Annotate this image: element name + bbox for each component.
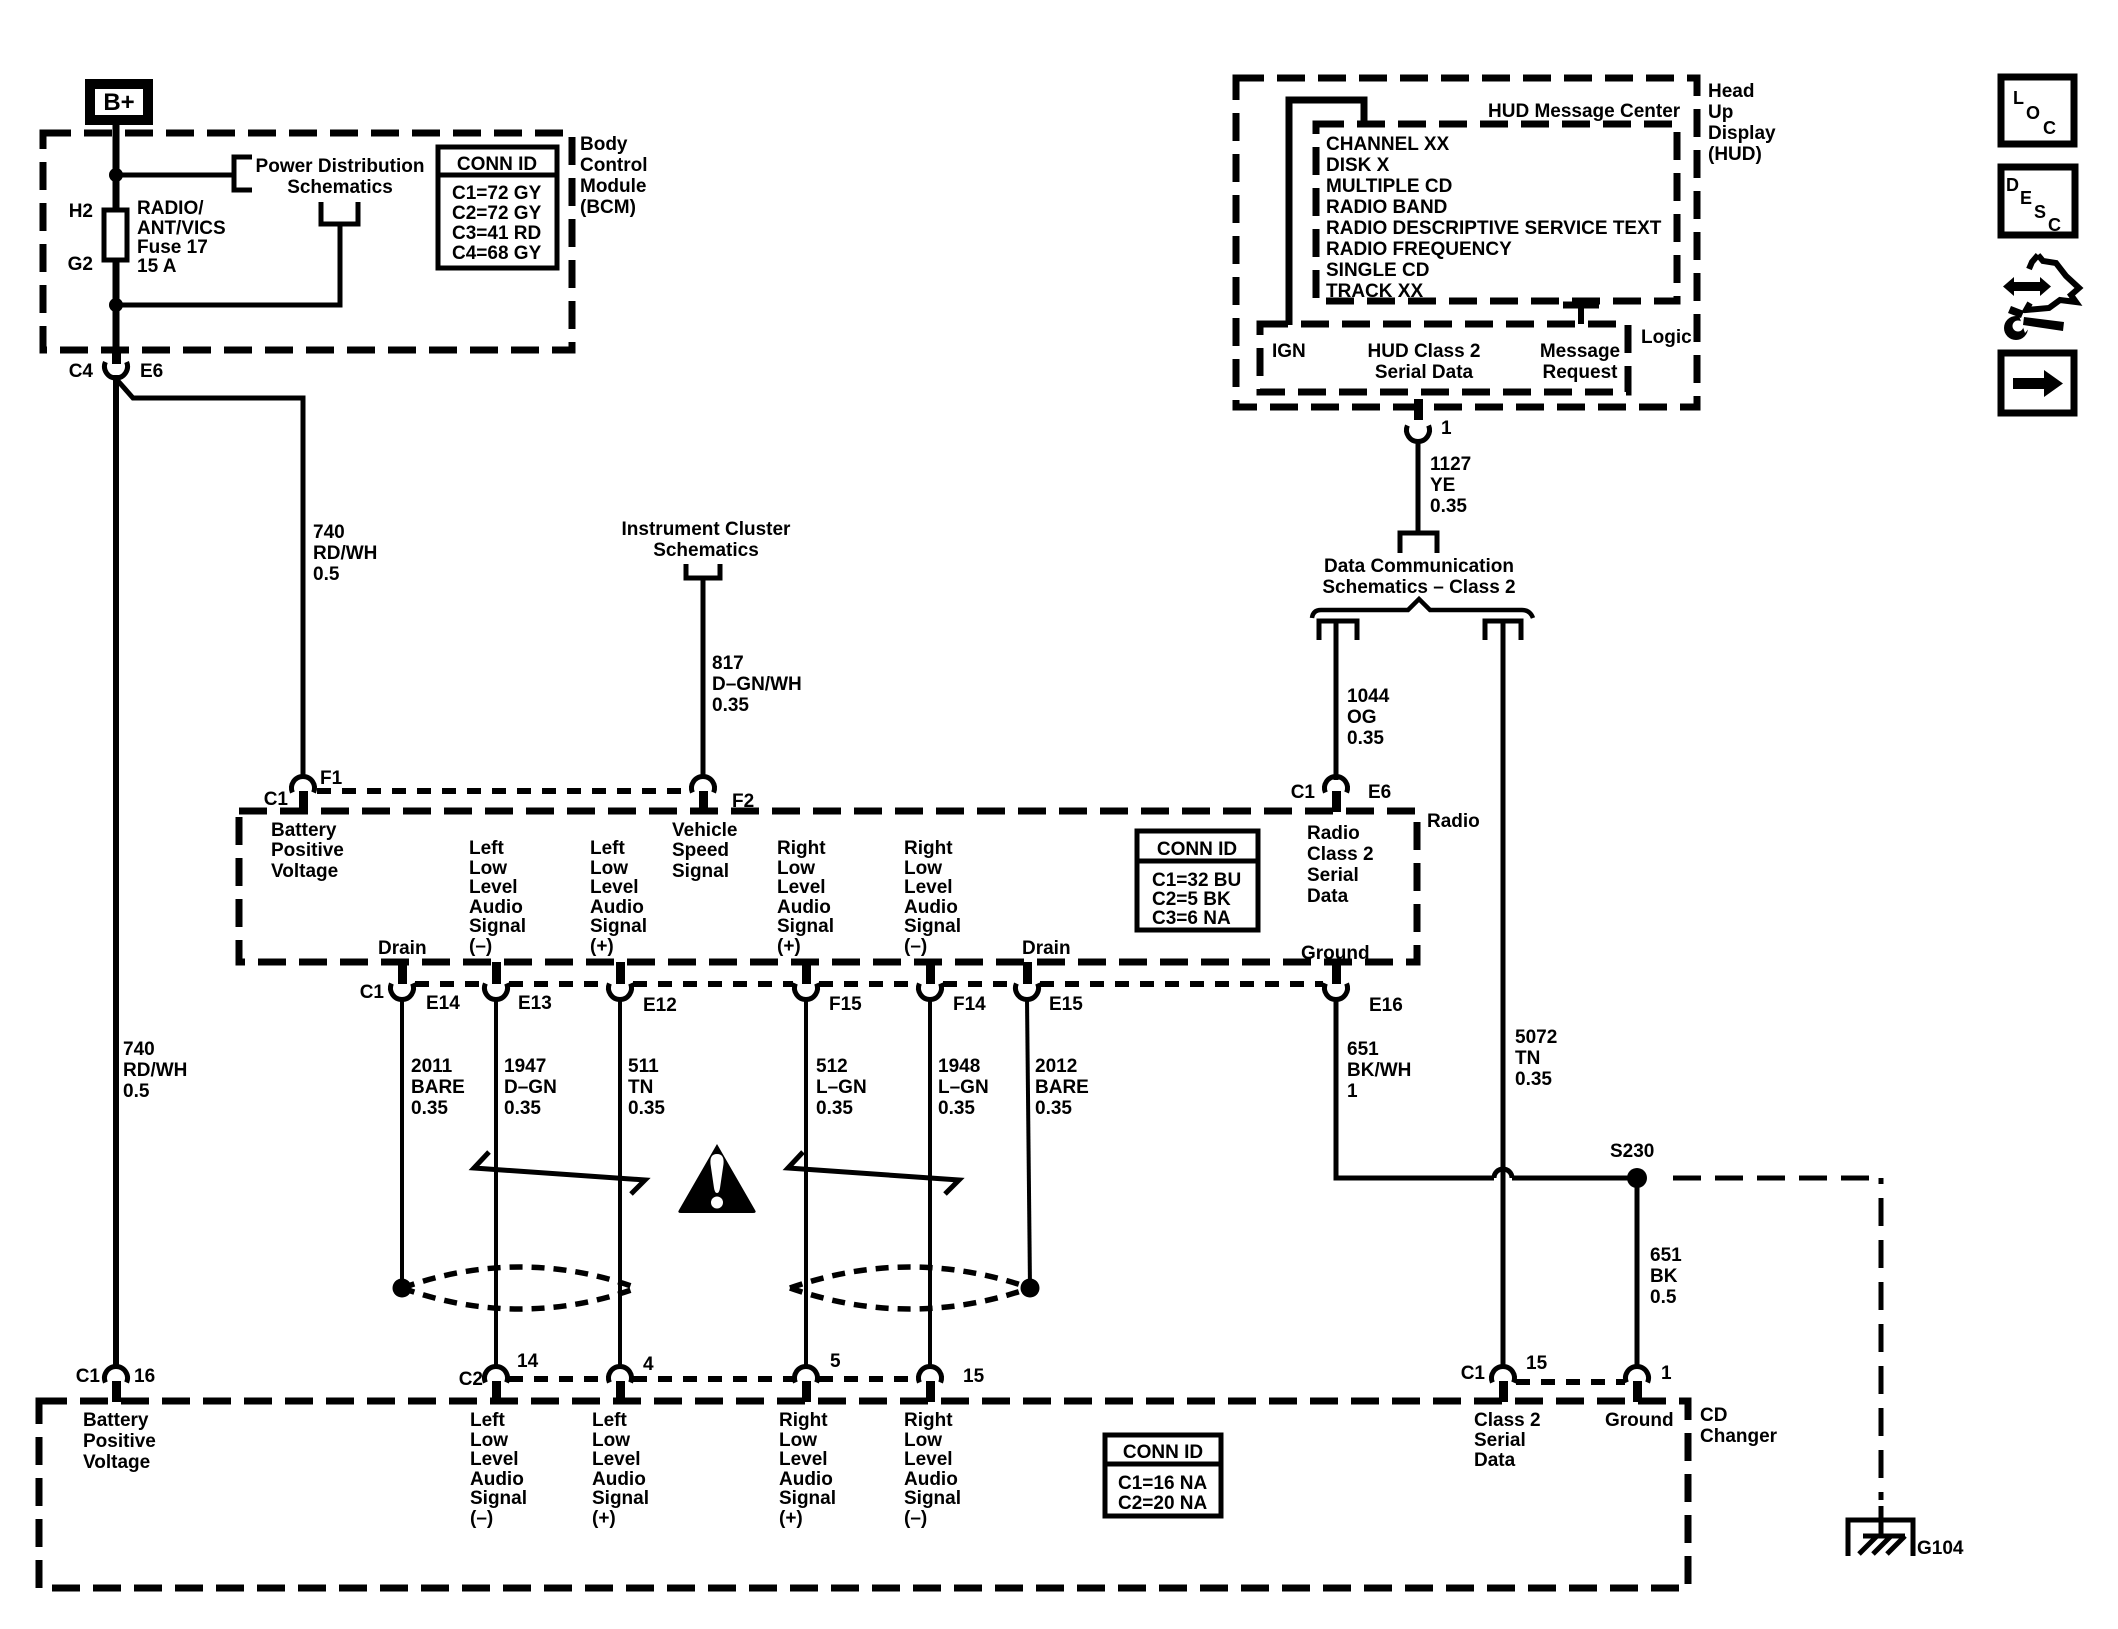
svg-text:D: D bbox=[2006, 175, 2019, 195]
svg-text:D–GN/WH: D–GN/WH bbox=[712, 674, 802, 695]
svg-text:BARE: BARE bbox=[1035, 1077, 1089, 1098]
svg-text:C4=68 GY: C4=68 GY bbox=[452, 243, 542, 264]
svg-text:(+): (+) bbox=[590, 936, 614, 957]
wire from schematics bracket down and left to rail bbox=[116, 224, 340, 305]
label Instrument Cluster Schematics bbox=[622, 519, 792, 561]
shield lens left bbox=[402, 1267, 637, 1309]
svg-text:C1: C1 bbox=[264, 789, 289, 810]
svg-text:Signal: Signal bbox=[904, 916, 961, 937]
svg-text:(–): (–) bbox=[470, 1508, 493, 1529]
svg-text:C1: C1 bbox=[360, 982, 385, 1003]
svg-text:Low: Low bbox=[779, 1430, 817, 1451]
svg-text:IGN: IGN bbox=[1272, 341, 1306, 362]
svg-text:1044: 1044 bbox=[1347, 686, 1390, 707]
label Body Control Module (BCM) bbox=[580, 134, 648, 218]
svg-text:651: 651 bbox=[1650, 1245, 1682, 1266]
brace over class 2 branches bbox=[1312, 599, 1533, 618]
label Message Request bbox=[1540, 341, 1620, 383]
connector 15 audio bbox=[919, 1367, 942, 1402]
svg-text:Radio: Radio bbox=[1427, 811, 1480, 832]
label Power Distribution Schematics bbox=[256, 156, 425, 198]
label right low level audio signal minus bbox=[904, 838, 961, 957]
svg-text:Low: Low bbox=[904, 858, 942, 879]
wire 511 E12 down bbox=[618, 999, 622, 1366]
off-page bracket data communication bbox=[1400, 533, 1437, 553]
svg-text:Up: Up bbox=[1708, 102, 1733, 123]
svg-text:5072: 5072 bbox=[1515, 1027, 1557, 1048]
svg-text:Left: Left bbox=[592, 1410, 628, 1431]
svg-text:Drain: Drain bbox=[378, 938, 427, 959]
CD changer dashed box bbox=[39, 1401, 1688, 1588]
connector E15 drain bbox=[1016, 962, 1039, 999]
svg-text:Request: Request bbox=[1543, 362, 1619, 383]
connector E16 ground bbox=[1325, 962, 1348, 999]
svg-text:C3=41 RD: C3=41 RD bbox=[452, 223, 541, 244]
svg-text:1947: 1947 bbox=[504, 1056, 546, 1077]
node junction lower tap bbox=[109, 298, 123, 312]
label CD left audio minus bbox=[470, 1410, 527, 1529]
label circuit 651 BK 0.5 bbox=[1650, 1245, 1682, 1308]
svg-text:0.35: 0.35 bbox=[712, 695, 749, 716]
svg-text:Left: Left bbox=[590, 838, 626, 859]
svg-text:L: L bbox=[2013, 88, 2024, 108]
svg-text:CONN ID: CONN ID bbox=[1157, 839, 1237, 860]
twisted pair symbol right bbox=[788, 1152, 959, 1194]
connector C1 / E14 drain bbox=[391, 962, 414, 999]
svg-text:Battery: Battery bbox=[83, 1410, 149, 1431]
svg-text:651: 651 bbox=[1347, 1039, 1379, 1060]
wire 651 BK down to CD changer ground bbox=[1635, 1178, 1640, 1366]
shield lens right bbox=[790, 1267, 1030, 1309]
radio pin labels row bbox=[271, 820, 344, 882]
svg-text:0.35: 0.35 bbox=[1430, 496, 1467, 517]
label circuit 740 RD/WH 0.5 lower bbox=[123, 1039, 187, 1102]
connector 4 bbox=[609, 1367, 632, 1402]
svg-text:(BCM): (BCM) bbox=[580, 197, 636, 218]
svg-text:CD: CD bbox=[1700, 1405, 1727, 1426]
svg-text:B+: B+ bbox=[103, 89, 134, 116]
svg-text:C1: C1 bbox=[1461, 1363, 1486, 1384]
svg-text:YE: YE bbox=[1430, 475, 1455, 496]
icon schematic navigation bbox=[2003, 255, 2079, 340]
svg-text:E16: E16 bbox=[1369, 995, 1403, 1016]
svg-text:(+): (+) bbox=[592, 1508, 616, 1529]
svg-text:C1=16 NA: C1=16 NA bbox=[1118, 1473, 1208, 1494]
connector C1 / 16 battery input CD bbox=[105, 1367, 128, 1402]
wire dotted row 2 bbox=[415, 981, 1323, 987]
label circuit 1044 OG 0.35 bbox=[1347, 686, 1390, 749]
svg-text:Signal: Signal bbox=[672, 861, 729, 882]
svg-text:0.35: 0.35 bbox=[1515, 1069, 1552, 1090]
wire 512 F15 down bbox=[804, 999, 808, 1366]
svg-text:C3=6 NA: C3=6 NA bbox=[1152, 908, 1231, 929]
svg-text:F15: F15 bbox=[829, 994, 862, 1015]
svg-text:Changer: Changer bbox=[1700, 1426, 1778, 1447]
svg-text:Message: Message bbox=[1540, 341, 1620, 362]
svg-text:Left: Left bbox=[469, 838, 505, 859]
wire 1947 E13 down bbox=[494, 999, 498, 1366]
svg-text:C1: C1 bbox=[76, 1366, 101, 1387]
label HUD Class 2 Serial Data bbox=[1368, 341, 1481, 383]
svg-text:16: 16 bbox=[134, 1366, 155, 1387]
svg-text:Right: Right bbox=[779, 1410, 828, 1431]
svg-text:CONN ID: CONN ID bbox=[1123, 1442, 1203, 1463]
svg-text:Low: Low bbox=[777, 858, 815, 879]
svg-text:Drain: Drain bbox=[1022, 938, 1071, 959]
svg-text:0.5: 0.5 bbox=[123, 1081, 150, 1102]
label left low level audio signal minus bbox=[469, 838, 526, 957]
label CD right audio minus bbox=[904, 1410, 961, 1529]
svg-text:Ground: Ground bbox=[1301, 943, 1370, 964]
svg-text:Audio: Audio bbox=[779, 1469, 833, 1490]
svg-text:Speed: Speed bbox=[672, 840, 729, 861]
svg-text:C1=72 GY: C1=72 GY bbox=[452, 183, 542, 204]
label circuit 511 TN 0.35 bbox=[628, 1056, 665, 1119]
connector 5 bbox=[795, 1367, 818, 1402]
svg-text:1: 1 bbox=[1441, 418, 1452, 439]
CD changer pin labels bbox=[83, 1410, 156, 1473]
label circuit 740 RD/WH 0.5 upper bbox=[313, 522, 377, 585]
off-page bracket class 2 right bbox=[1485, 621, 1521, 640]
node junction at power distribution tap bbox=[109, 168, 123, 182]
connector F15 bbox=[795, 962, 818, 999]
off-page bracket Power Distribution bbox=[234, 157, 252, 190]
svg-text:Battery: Battery bbox=[271, 820, 337, 841]
label circuit 1947 D-GN 0.35 bbox=[504, 1056, 557, 1119]
svg-text:0.35: 0.35 bbox=[411, 1098, 448, 1119]
svg-text:Positive: Positive bbox=[83, 1431, 156, 1452]
svg-text:Class 2: Class 2 bbox=[1474, 1410, 1541, 1431]
svg-text:S230: S230 bbox=[1610, 1141, 1654, 1162]
svg-text:Low: Low bbox=[469, 858, 507, 879]
wire 1044 down to radio bbox=[1334, 621, 1339, 780]
wire 1948 F14 down bbox=[928, 999, 932, 1366]
svg-text:OG: OG bbox=[1347, 707, 1377, 728]
svg-text:F1: F1 bbox=[320, 768, 343, 789]
svg-text:C2: C2 bbox=[459, 1369, 483, 1390]
svg-text:S: S bbox=[2034, 202, 2046, 222]
svg-text:G104: G104 bbox=[1917, 1538, 1964, 1559]
svg-text:RADIO/: RADIO/ bbox=[137, 198, 204, 219]
svg-text:2011: 2011 bbox=[411, 1056, 453, 1077]
connector F2 vehicle speed input bbox=[692, 777, 715, 812]
label circuit 817 D-GN/WH 0.35 bbox=[712, 653, 802, 716]
svg-text:Serial: Serial bbox=[1307, 865, 1359, 886]
svg-text:0.35: 0.35 bbox=[628, 1098, 665, 1119]
warning triangle bbox=[678, 1144, 755, 1213]
svg-text:5: 5 bbox=[830, 1351, 841, 1372]
wire S230 to splice bbox=[1512, 1176, 1638, 1181]
node shield junction left bbox=[393, 1279, 412, 1298]
node shield junction right bbox=[1021, 1279, 1040, 1298]
svg-text:Vehicle: Vehicle bbox=[672, 820, 738, 841]
svg-text:O: O bbox=[2026, 103, 2040, 123]
wire 817 to radio F2 bbox=[701, 578, 706, 777]
svg-text:(HUD): (HUD) bbox=[1708, 144, 1762, 165]
svg-text:Class 2: Class 2 bbox=[1307, 844, 1374, 865]
twisted pair symbol left bbox=[474, 1152, 645, 1194]
svg-text:511: 511 bbox=[628, 1056, 659, 1077]
label circuit 2012 BARE 0.35 bbox=[1035, 1056, 1089, 1119]
svg-text:Data Communication: Data Communication bbox=[1324, 556, 1514, 577]
svg-text:SINGLE CD: SINGLE CD bbox=[1326, 260, 1429, 281]
wire branch to radio battery feed bbox=[118, 381, 303, 777]
wire S230 hop over 5072 bbox=[1494, 1169, 1512, 1178]
label circuit 2011 BARE 0.35 bbox=[411, 1056, 465, 1119]
svg-text:740: 740 bbox=[123, 1039, 155, 1060]
connector C1 / F1 radio battery input bbox=[292, 777, 315, 812]
svg-text:RD/WH: RD/WH bbox=[313, 543, 377, 564]
svg-text:RADIO BAND: RADIO BAND bbox=[1326, 197, 1447, 218]
svg-text:G2: G2 bbox=[68, 254, 93, 275]
svg-text:C: C bbox=[2048, 215, 2061, 235]
label CD right audio plus bbox=[779, 1410, 836, 1529]
HUD outer dashed box (Head Up Display) bbox=[1236, 78, 1697, 407]
svg-text:E15: E15 bbox=[1049, 994, 1083, 1015]
svg-text:Instrument Cluster: Instrument Cluster bbox=[622, 519, 792, 540]
label circuit 512 L-GN 0.35 bbox=[816, 1056, 867, 1119]
svg-text:15: 15 bbox=[963, 1366, 985, 1387]
svg-text:2012: 2012 bbox=[1035, 1056, 1077, 1077]
connector C1 / E6 radio serial data bbox=[1325, 777, 1348, 812]
svg-text:Serial: Serial bbox=[1474, 1430, 1526, 1451]
CONN ID table BCM bbox=[438, 147, 557, 268]
svg-text:Low: Low bbox=[470, 1430, 508, 1451]
label right low level audio signal plus bbox=[777, 838, 834, 957]
wire to power distribution reference bbox=[116, 173, 234, 178]
connector E13 bbox=[485, 962, 508, 999]
svg-text:Level: Level bbox=[777, 877, 826, 898]
svg-text:14: 14 bbox=[517, 1351, 539, 1372]
CONN ID table CD changer bbox=[1105, 1435, 1221, 1516]
svg-text:RADIO FREQUENCY: RADIO FREQUENCY bbox=[1326, 239, 1512, 260]
svg-text:Fuse 17: Fuse 17 bbox=[137, 237, 208, 258]
connector C2 / 14 bbox=[485, 1367, 508, 1402]
off-page bracket under Schematics bbox=[321, 202, 358, 224]
svg-text:0.35: 0.35 bbox=[938, 1098, 975, 1119]
svg-text:0.35: 0.35 bbox=[816, 1098, 853, 1119]
svg-text:Schematics: Schematics bbox=[287, 177, 393, 198]
svg-text:Data: Data bbox=[1474, 1450, 1516, 1471]
wire B+ rail bbox=[113, 125, 120, 360]
wire 5072 down to CD changer bbox=[1501, 621, 1506, 1366]
svg-text:Positive: Positive bbox=[271, 840, 344, 861]
svg-text:(+): (+) bbox=[779, 1508, 803, 1529]
label circuit 5072 TN 0.35 bbox=[1515, 1027, 1557, 1090]
svg-text:Audio: Audio bbox=[904, 1469, 958, 1490]
svg-text:Control: Control bbox=[580, 155, 648, 176]
svg-text:Level: Level bbox=[904, 877, 953, 898]
svg-text:15: 15 bbox=[1526, 1353, 1548, 1374]
svg-text:Schematics: Schematics bbox=[653, 540, 759, 561]
svg-text:L–GN: L–GN bbox=[938, 1077, 989, 1098]
svg-text:D–GN: D–GN bbox=[504, 1077, 557, 1098]
svg-text:C: C bbox=[2043, 118, 2056, 138]
wire dotted row 3 right bbox=[1516, 1379, 1625, 1385]
svg-text:C1: C1 bbox=[1291, 782, 1316, 803]
wire 1127 bbox=[1416, 439, 1421, 533]
HUD message list text bbox=[1326, 134, 1662, 302]
label circuit 1127 YE 0.35 bbox=[1430, 454, 1471, 517]
svg-text:Serial Data: Serial Data bbox=[1375, 362, 1474, 383]
svg-text:Signal: Signal bbox=[469, 916, 526, 937]
svg-text:F2: F2 bbox=[732, 791, 754, 812]
icon LOC box bbox=[2001, 77, 2074, 144]
wire ground stub bbox=[1879, 1506, 1884, 1537]
wire main rail down to CD changer bbox=[113, 375, 119, 1366]
svg-text:Voltage: Voltage bbox=[83, 1452, 150, 1473]
svg-text:C1=32 BU: C1=32 BU bbox=[1152, 870, 1241, 891]
svg-text:RADIO DESCRIPTIVE SERVICE TEXT: RADIO DESCRIPTIVE SERVICE TEXT bbox=[1326, 218, 1662, 239]
svg-text:Low: Low bbox=[590, 858, 628, 879]
svg-text:Voltage: Voltage bbox=[271, 861, 338, 882]
svg-text:0.5: 0.5 bbox=[1650, 1287, 1677, 1308]
svg-text:1: 1 bbox=[1661, 1363, 1672, 1384]
svg-text:C2=72 GY: C2=72 GY bbox=[452, 203, 542, 224]
label class 2 serial data CD bbox=[1474, 1410, 1541, 1471]
svg-text:0.35: 0.35 bbox=[1347, 728, 1384, 749]
label circuit 651 BK/WH 1 bbox=[1347, 1039, 1411, 1102]
svg-text:Level: Level bbox=[779, 1449, 828, 1470]
svg-text:F14: F14 bbox=[953, 994, 986, 1015]
svg-text:E12: E12 bbox=[643, 995, 677, 1016]
svg-text:Left: Left bbox=[470, 1410, 506, 1431]
svg-text:Audio: Audio bbox=[777, 897, 831, 918]
svg-text:Audio: Audio bbox=[470, 1469, 524, 1490]
svg-text:Signal: Signal bbox=[470, 1488, 527, 1509]
HUD message list inner dashed box bbox=[1316, 124, 1677, 301]
svg-text:0.35: 0.35 bbox=[1035, 1098, 1072, 1119]
svg-text:1948: 1948 bbox=[938, 1056, 980, 1077]
svg-text:E13: E13 bbox=[518, 993, 552, 1014]
svg-text:CHANNEL XX: CHANNEL XX bbox=[1326, 134, 1449, 155]
svg-text:Low: Low bbox=[592, 1430, 630, 1451]
svg-text:1127: 1127 bbox=[1430, 454, 1471, 475]
svg-text:Module: Module bbox=[580, 176, 647, 197]
svg-text:Level: Level bbox=[470, 1449, 519, 1470]
svg-text:C2=5 BK: C2=5 BK bbox=[1152, 889, 1231, 910]
svg-text:0.5: 0.5 bbox=[313, 564, 340, 585]
connector C4 / E6 at BCM output bbox=[105, 350, 128, 378]
label radio class 2 serial data bbox=[1307, 823, 1374, 907]
logic dashed box bbox=[1260, 324, 1628, 392]
svg-text:Radio: Radio bbox=[1307, 823, 1360, 844]
svg-text:RD/WH: RD/WH bbox=[123, 1060, 187, 1081]
wire ground dashed drop bbox=[1879, 1178, 1884, 1500]
svg-text:Ground: Ground bbox=[1605, 1410, 1674, 1431]
label left low level audio signal plus bbox=[590, 838, 647, 957]
connector 1 ground CD bbox=[1626, 1367, 1649, 1402]
connector E12 bbox=[609, 962, 632, 999]
svg-text:Signal: Signal bbox=[779, 1488, 836, 1509]
svg-text:Right: Right bbox=[904, 838, 953, 859]
wire dashed to ground G104 bbox=[1673, 1176, 1881, 1181]
icon arrow box bbox=[2001, 353, 2074, 413]
svg-text:Schematics – Class 2: Schematics – Class 2 bbox=[1322, 577, 1515, 598]
wire drain E14 down to shield bbox=[400, 999, 404, 1288]
off-page bracket instrument cluster bbox=[686, 564, 720, 578]
CONN ID table radio bbox=[1137, 831, 1258, 930]
svg-text:Signal: Signal bbox=[777, 916, 834, 937]
svg-text:E14: E14 bbox=[426, 993, 460, 1014]
svg-text:Display: Display bbox=[1708, 123, 1776, 144]
svg-text:4: 4 bbox=[643, 1354, 654, 1375]
svg-text:E6: E6 bbox=[1368, 782, 1391, 803]
off-page bracket class 2 left bbox=[1319, 621, 1357, 640]
svg-text:Body: Body bbox=[580, 134, 628, 155]
label vehicle speed signal bbox=[672, 820, 738, 882]
svg-text:Logic: Logic bbox=[1641, 327, 1692, 348]
svg-text:15 A: 15 A bbox=[137, 256, 177, 277]
fuse F17 RADIO/ANT/VICS bbox=[104, 210, 127, 260]
svg-text:0.35: 0.35 bbox=[504, 1098, 541, 1119]
svg-text:TN: TN bbox=[628, 1077, 653, 1098]
svg-text:Audio: Audio bbox=[469, 897, 523, 918]
wire IGN internal elbow bbox=[1289, 100, 1364, 325]
label Head Up Display (HUD) bbox=[1708, 81, 1776, 165]
svg-text:Head: Head bbox=[1708, 81, 1754, 102]
wire 651 BK/WH E16 down bbox=[1336, 999, 1494, 1178]
svg-text:Audio: Audio bbox=[592, 1469, 646, 1490]
svg-text:Level: Level bbox=[904, 1449, 953, 1470]
label Data Communication Schematics Class 2 bbox=[1322, 556, 1515, 598]
svg-text:C4: C4 bbox=[69, 361, 94, 382]
wire dotted connector line F1 to F2 bbox=[317, 788, 690, 794]
svg-text:(–): (–) bbox=[469, 936, 492, 957]
label CD Changer bbox=[1700, 1405, 1778, 1447]
svg-text:Signal: Signal bbox=[904, 1488, 961, 1509]
label circuit 1948 L-GN 0.35 bbox=[938, 1056, 989, 1119]
svg-text:Audio: Audio bbox=[904, 897, 958, 918]
svg-text:Signal: Signal bbox=[592, 1488, 649, 1509]
wire message request tee bbox=[1563, 305, 1599, 324]
svg-text:(+): (+) bbox=[777, 936, 801, 957]
battery positive symbol B+ bbox=[90, 84, 148, 120]
svg-text:817: 817 bbox=[712, 653, 744, 674]
svg-text:HUD Class 2: HUD Class 2 bbox=[1368, 341, 1481, 362]
svg-text:HUD Message Center: HUD Message Center bbox=[1488, 101, 1681, 122]
svg-text:E6: E6 bbox=[140, 361, 163, 382]
svg-text:L–GN: L–GN bbox=[816, 1077, 867, 1098]
svg-text:Level: Level bbox=[590, 877, 639, 898]
svg-text:Right: Right bbox=[904, 1410, 953, 1431]
wire dotted row 3 left bbox=[509, 1376, 917, 1382]
connector 1 at HUD output bbox=[1407, 399, 1430, 441]
svg-text:H2: H2 bbox=[69, 201, 93, 222]
svg-text:Low: Low bbox=[904, 1430, 942, 1451]
svg-text:512: 512 bbox=[816, 1056, 848, 1077]
label fuse value bbox=[137, 198, 226, 277]
svg-text:(–): (–) bbox=[904, 936, 927, 957]
svg-text:Power Distribution: Power Distribution bbox=[256, 156, 425, 177]
svg-text:Data: Data bbox=[1307, 886, 1349, 907]
svg-text:Level: Level bbox=[592, 1449, 641, 1470]
svg-text:TN: TN bbox=[1515, 1048, 1540, 1069]
svg-text:C2=20 NA: C2=20 NA bbox=[1118, 1493, 1208, 1514]
ground symbol G104 bbox=[1848, 1520, 1913, 1556]
icon DESC box bbox=[2001, 167, 2075, 235]
label CD left audio plus bbox=[592, 1410, 649, 1529]
svg-text:DISK X: DISK X bbox=[1326, 155, 1390, 176]
svg-text:BK: BK bbox=[1650, 1266, 1678, 1287]
svg-text:1: 1 bbox=[1347, 1081, 1358, 1102]
svg-text:MULTIPLE CD: MULTIPLE CD bbox=[1326, 176, 1452, 197]
svg-text:BK/WH: BK/WH bbox=[1347, 1060, 1411, 1081]
svg-text:740: 740 bbox=[313, 522, 345, 543]
connector F14 bbox=[919, 962, 942, 999]
node splice S230 bbox=[1627, 1168, 1647, 1188]
svg-text:Audio: Audio bbox=[590, 897, 644, 918]
